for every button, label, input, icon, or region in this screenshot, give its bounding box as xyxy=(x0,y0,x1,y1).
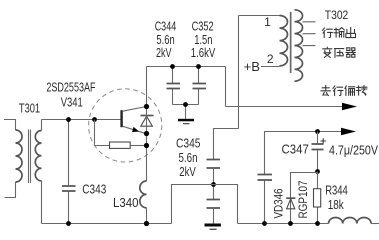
node: R344 bottom xyxy=(315,221,320,226)
svg-text:2kV: 2kV xyxy=(179,164,196,179)
node: S-cap bottom xyxy=(262,221,267,226)
arrow: to horizontal deflection (upper) xyxy=(342,103,357,111)
resistor R344 xyxy=(314,172,321,224)
capacitor C343 xyxy=(62,120,76,224)
svg-text:T301: T301 xyxy=(19,101,40,116)
label 变压器 (transformer) xyxy=(323,47,356,57)
wire: T302 pin1 vertical feed xyxy=(238,16,240,129)
ground: under C345 xyxy=(205,224,221,231)
svg-text:2: 2 xyxy=(267,52,274,66)
capacitor C344 xyxy=(167,67,181,105)
transformer T302 core xyxy=(290,12,292,73)
node: C345 midpoint xyxy=(211,182,216,187)
label C352 value xyxy=(191,19,216,60)
node: C344 top junction xyxy=(170,64,175,69)
node: internal resistor junction xyxy=(144,143,149,148)
svg-text:C343: C343 xyxy=(82,182,106,197)
capacitor (S-correction, unlabeled) xyxy=(258,175,273,224)
wire: second deflection line xyxy=(265,132,343,175)
svg-text:18k: 18k xyxy=(328,197,344,212)
inductor L340 xyxy=(140,181,147,224)
wire: top bus from collector corner to right corner xyxy=(147,66,226,68)
wire: C345 midpoint left to bottom rail xyxy=(172,185,214,224)
svg-text:C347: C347 xyxy=(282,141,309,156)
label 去行偏转 (to horizontal deflection) xyxy=(321,85,367,95)
wire: resistor to emitter node xyxy=(131,145,147,147)
svg-text:5.6n: 5.6n xyxy=(179,150,198,165)
svg-text:VD346: VD346 xyxy=(272,188,286,218)
transformer T301 driver xyxy=(4,120,42,224)
svg-text:2SD2553AF: 2SD2553AF xyxy=(46,80,95,95)
svg-text:1: 1 xyxy=(264,15,271,29)
transformer T302 primary winding xyxy=(239,16,288,67)
wire: first deflection line xyxy=(226,106,344,108)
node: base branch xyxy=(92,117,97,122)
node: C347 bottom / R344 top / VD346 branch xyxy=(315,169,320,174)
wire: damper bottom rail xyxy=(238,223,329,225)
diode VD346 (RGP107) xyxy=(286,198,295,223)
label C344 value xyxy=(155,19,177,60)
capacitor C352 xyxy=(193,67,207,105)
wire: C345 midpoint right down to damper rail xyxy=(214,185,238,224)
wire: main collector-emitter vertical xyxy=(146,107,148,182)
wire: vertical from top bus down to collector node xyxy=(146,67,148,107)
node: emitter xyxy=(144,131,149,136)
node: collector xyxy=(144,104,149,109)
ground: under C344/C352 xyxy=(178,119,194,125)
svg-text:V341: V341 xyxy=(61,95,83,110)
svg-text:T302: T302 xyxy=(325,8,349,22)
capacitor C345 (two sections in series) xyxy=(207,160,221,224)
transistor V341 body circle (dashed) xyxy=(89,89,162,162)
svg-text:L340: L340 xyxy=(113,195,139,210)
wire: C344/C352 bottom junction xyxy=(173,105,199,119)
svg-text:C345: C345 xyxy=(176,136,201,151)
wire: branch to diode VD346 xyxy=(291,173,318,210)
node: emitter return to rail xyxy=(144,221,149,226)
transformer T302 secondary winding xyxy=(295,10,316,81)
wire: base bus xyxy=(42,119,121,121)
svg-text:1.6kV: 1.6kV xyxy=(191,45,216,60)
resistor: internal base-emitter resistor of V341 xyxy=(110,142,131,148)
label R344 value xyxy=(325,183,348,212)
svg-text:RGP107: RGP107 xyxy=(296,180,310,218)
svg-text:+B: +B xyxy=(244,59,260,74)
svg-text:R344: R344 xyxy=(325,183,348,198)
transistor V341 symbol xyxy=(120,107,146,134)
inductor: deflection yoke coil xyxy=(329,217,379,223)
node: VD346 anode xyxy=(288,221,293,226)
node: C343 top xyxy=(66,117,71,122)
label 行输出 (line output) xyxy=(323,27,356,37)
arrow: to horizontal deflection (lower) xyxy=(341,128,356,136)
svg-text:2kV: 2kV xyxy=(156,45,172,60)
svg-text:4.7μ/250V: 4.7μ/250V xyxy=(329,143,378,158)
label C345 value xyxy=(176,136,201,180)
capacitor C347 electrolytic xyxy=(312,132,326,172)
wire: base branch down to internal resistor xyxy=(95,120,110,146)
wire: right corner of top bus down to deflection arrow line xyxy=(225,67,227,107)
diode: internal damper of V341 xyxy=(141,116,154,127)
node: arrow line to C347 xyxy=(315,129,320,134)
node: C352 top junction xyxy=(196,64,201,69)
node: junction of C344 and C352 bottoms xyxy=(183,102,188,107)
wire: from pin1 feed to C345 top xyxy=(214,129,239,160)
node: C343 bottom xyxy=(66,221,71,226)
wire: bottom rail left xyxy=(42,223,172,225)
